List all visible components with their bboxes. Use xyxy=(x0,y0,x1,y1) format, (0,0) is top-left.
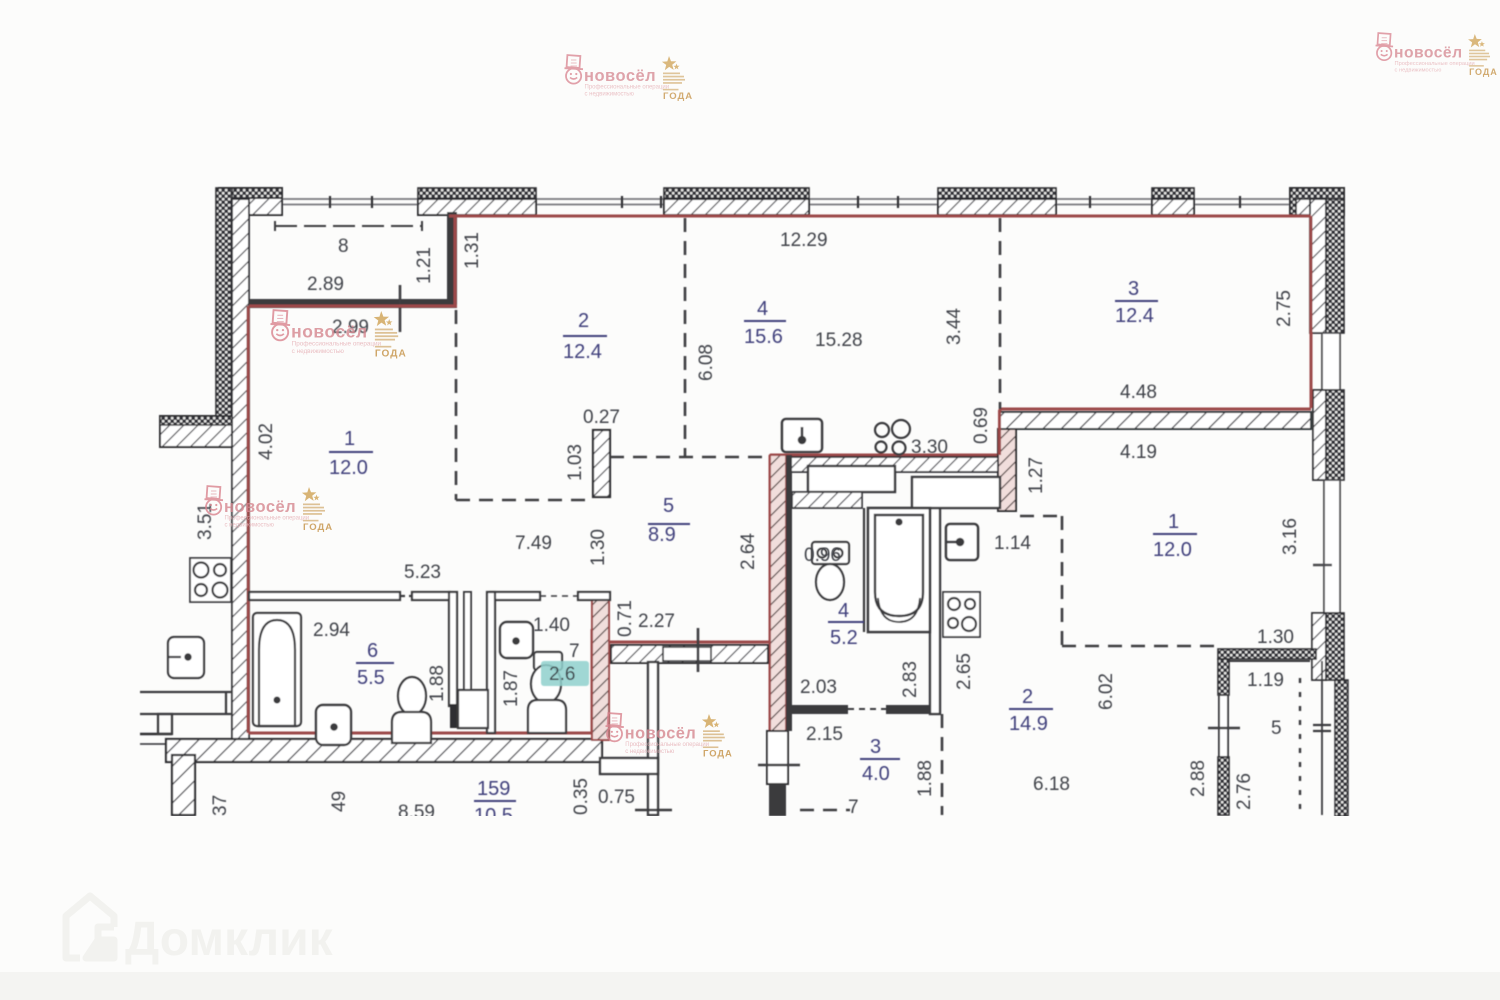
wall block top 5 xyxy=(1152,188,1194,215)
corridor 5 bottom hatched band xyxy=(611,645,768,663)
stove left xyxy=(190,558,231,602)
svg-text:3.44: 3.44 xyxy=(944,308,965,345)
svg-text:2.89: 2.89 xyxy=(307,274,344,295)
svg-text:2.27: 2.27 xyxy=(638,611,675,632)
right red line of room 3 xyxy=(1310,216,1313,408)
dashed dim line inside room 8 xyxy=(275,221,422,231)
narrow checkered strip to bottom (balcony outer wall) xyxy=(1335,680,1348,816)
hall walls below corridor xyxy=(600,662,672,815)
kitchen stove 4 rings xyxy=(875,420,910,455)
svg-text:3: 3 xyxy=(870,736,881,758)
wire top window sill line full width xyxy=(252,199,1320,205)
svg-text:1.31: 1.31 xyxy=(462,232,483,269)
svg-text:5.2: 5.2 xyxy=(830,627,858,649)
svg-text:1.30: 1.30 xyxy=(1257,627,1294,648)
svg-text:1.87: 1.87 xyxy=(501,670,522,707)
svg-text:2.6: 2.6 xyxy=(549,664,575,685)
svg-text:1.19: 1.19 xyxy=(1247,670,1284,691)
shaft walls between bath 6 and wc 7 xyxy=(449,592,495,733)
toilet wc 7 xyxy=(528,652,566,733)
window segment 2 xyxy=(1313,480,1340,613)
room 1 right label xyxy=(1153,511,1192,561)
svg-text:1.21: 1.21 xyxy=(414,247,435,284)
novosel watermark bottom-middle xyxy=(606,713,733,758)
svg-text:1.88: 1.88 xyxy=(915,760,936,797)
svg-text:12.29: 12.29 xyxy=(780,230,828,251)
upper solid segment beside room 3 xyxy=(1310,199,1326,333)
svg-text:2.03: 2.03 xyxy=(800,677,837,698)
bathtub mid xyxy=(868,508,930,632)
wall stub below room3 wall, left end xyxy=(998,429,1016,511)
corridor bottom red xyxy=(592,641,770,644)
svg-text:12.0: 12.0 xyxy=(329,457,368,479)
room 3 bottom red xyxy=(1000,408,1311,411)
svg-text:2: 2 xyxy=(578,310,589,332)
svg-text:6.02: 6.02 xyxy=(1096,673,1117,710)
wc 4/5.2 label xyxy=(830,600,858,649)
toilet mid bathroom xyxy=(812,542,849,600)
window mullion ticks on top wall xyxy=(330,196,1240,208)
svg-text:3.16: 3.16 xyxy=(1280,518,1301,555)
159/10.5 label bottom xyxy=(474,778,513,827)
svg-text:4.19: 4.19 xyxy=(1120,442,1157,463)
svg-text:7: 7 xyxy=(569,641,580,662)
svg-text:8.9: 8.9 xyxy=(648,524,676,546)
top red line xyxy=(449,215,1311,218)
wall block top-right corner xyxy=(1290,188,1344,215)
domklik watermark xyxy=(66,896,334,966)
bathroom 4/5.2 left wall xyxy=(786,455,792,731)
room 1 left label xyxy=(329,428,368,479)
sink wc 7 xyxy=(500,622,533,658)
sink room 6 xyxy=(316,705,351,745)
room 2 label xyxy=(1009,686,1048,735)
wall block top 3 xyxy=(664,188,809,215)
sink left xyxy=(168,637,204,678)
svg-text:4.02: 4.02 xyxy=(256,423,277,460)
svg-text:1.30: 1.30 xyxy=(588,529,609,566)
svg-text:1.40: 1.40 xyxy=(533,615,570,636)
svg-text:5.23: 5.23 xyxy=(404,562,441,583)
bath 6 label xyxy=(357,640,385,689)
svg-text:2.76: 2.76 xyxy=(1234,773,1255,810)
kitchenette thin wall right (x1218) xyxy=(1218,649,1316,815)
svg-text:1.88: 1.88 xyxy=(427,665,448,702)
svg-text:1.27: 1.27 xyxy=(1026,457,1047,494)
svg-text:12.4: 12.4 xyxy=(563,341,602,363)
svg-text:14.9: 14.9 xyxy=(1009,713,1048,735)
svg-text:0.69: 0.69 xyxy=(971,407,992,444)
toilet-7 right red xyxy=(591,629,594,733)
svg-text:12.0: 12.0 xyxy=(1153,539,1192,561)
svg-text:15.28: 15.28 xyxy=(815,330,863,351)
novosel watermark top-center xyxy=(565,55,694,102)
svg-text:1.03: 1.03 xyxy=(565,444,586,481)
svg-text:12.4: 12.4 xyxy=(1115,305,1154,327)
room 8 right wall xyxy=(447,212,457,307)
corridor top wall stub (hatched pillar) xyxy=(593,430,610,497)
hall divider hatched wall xyxy=(770,455,786,731)
inner hatched layer xyxy=(232,199,249,740)
svg-text:Домклик: Домклик xyxy=(125,913,334,966)
svg-text:2.94: 2.94 xyxy=(313,620,350,641)
svg-text:0.71: 0.71 xyxy=(615,600,636,637)
hall divider red xyxy=(769,455,772,731)
svg-text:4: 4 xyxy=(838,600,849,622)
counter lines xyxy=(140,691,231,693)
room 8 right/bottom red xyxy=(454,216,457,306)
svg-text:6: 6 xyxy=(367,640,378,662)
svg-text:2.64: 2.64 xyxy=(738,533,759,570)
wall block top 4 xyxy=(938,188,1056,215)
hatch between counters / bath top xyxy=(792,492,862,508)
svg-text:3: 3 xyxy=(1128,278,1139,300)
svg-text:8: 8 xyxy=(338,236,349,257)
svg-text:2.65: 2.65 xyxy=(954,653,975,690)
toilet7 right red hatched wall xyxy=(592,592,609,740)
svg-text:2.15: 2.15 xyxy=(806,724,843,745)
checkered outer layer xyxy=(216,188,232,447)
svg-text:0.96: 0.96 xyxy=(804,545,841,566)
novosel watermark top-right xyxy=(1376,33,1498,77)
svg-text:15.6: 15.6 xyxy=(744,326,783,348)
svg-text:4.48: 4.48 xyxy=(1120,382,1157,403)
svg-text:2.75: 2.75 xyxy=(1274,290,1295,327)
hall 3/4.0 label xyxy=(862,736,890,785)
bottom-left corner vertical xyxy=(172,755,195,815)
svg-text:1: 1 xyxy=(344,428,355,450)
window segment xyxy=(1322,333,1340,390)
corridor 5 label xyxy=(648,495,676,546)
room 8 bottom wall xyxy=(249,299,457,308)
svg-text:7: 7 xyxy=(848,797,859,818)
bathtub room 6 xyxy=(253,613,301,726)
bathroom 4/5.2 bottom wall xyxy=(792,705,940,714)
svg-text:1: 1 xyxy=(1168,511,1179,533)
kitchen top red xyxy=(770,409,1000,455)
bath strip bottom red xyxy=(248,732,592,735)
svg-text:1.14: 1.14 xyxy=(994,533,1031,554)
balcony glazing lines xyxy=(1300,661,1331,815)
left wall step jut xyxy=(160,416,232,447)
svg-text:2.88: 2.88 xyxy=(1188,760,1209,797)
svg-text:4: 4 xyxy=(757,298,768,320)
svg-text:159: 159 xyxy=(477,778,510,800)
novosel watermark mid-left upper xyxy=(270,310,406,360)
svg-text:5: 5 xyxy=(663,495,674,517)
left red line xyxy=(247,306,250,733)
bathroom right wall xyxy=(930,508,940,714)
svg-text:0.75: 0.75 xyxy=(598,787,635,808)
stove kitchen-niche 2 xyxy=(943,592,980,637)
svg-text:0.27: 0.27 xyxy=(583,407,620,428)
svg-text:5.5: 5.5 xyxy=(357,667,385,689)
wall block top 2 xyxy=(418,188,536,215)
svg-text:37: 37 xyxy=(210,795,231,816)
wall block top-left corner xyxy=(219,188,282,215)
tick through bottom wall xyxy=(399,285,402,332)
bath strip top partition y592 xyxy=(249,592,610,600)
kitchen top hatched band xyxy=(786,457,998,472)
bottom grey strip xyxy=(0,972,1500,1000)
lower block xyxy=(1312,613,1326,680)
svg-text:49: 49 xyxy=(329,791,350,812)
svg-text:4.0: 4.0 xyxy=(862,763,890,785)
svg-text:0.35: 0.35 xyxy=(571,778,592,815)
svg-text:6.08: 6.08 xyxy=(696,344,717,381)
sink kitchen-niche 2 xyxy=(946,524,978,560)
mid block xyxy=(1313,390,1326,480)
kitchen washbasin xyxy=(782,419,822,452)
svg-text:3.30: 3.30 xyxy=(911,437,948,458)
tub partition line xyxy=(863,508,865,632)
svg-text:2: 2 xyxy=(1022,686,1033,708)
novosel watermark mid-left lower xyxy=(205,486,334,533)
svg-text:7.49: 7.49 xyxy=(515,533,552,554)
zone 2 left label xyxy=(563,310,602,363)
svg-text:2.83: 2.83 xyxy=(900,661,921,698)
kitchen counters xyxy=(808,466,895,492)
toilet room 6 xyxy=(392,677,431,743)
svg-text:5: 5 xyxy=(1271,718,1282,739)
door slot in hall divider xyxy=(767,731,788,784)
room 3 label xyxy=(1115,278,1154,327)
svg-text:6.18: 6.18 xyxy=(1033,774,1070,795)
room 4 label xyxy=(744,298,783,348)
